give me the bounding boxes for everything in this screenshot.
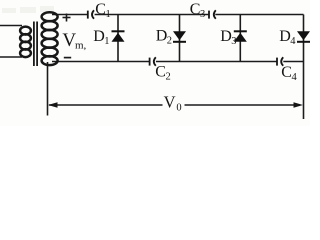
svg-text:2: 2 — [167, 36, 172, 47]
svg-text:D: D — [156, 28, 168, 45]
svg-text:V: V — [164, 93, 176, 112]
svg-text:3: 3 — [200, 9, 205, 20]
svg-text:4: 4 — [290, 36, 296, 47]
svg-text:D: D — [279, 28, 291, 45]
svg-text:m,: m, — [75, 40, 87, 52]
svg-text:D: D — [93, 28, 105, 45]
svg-text:D: D — [220, 28, 232, 45]
svg-text:3: 3 — [231, 36, 236, 47]
svg-text:C: C — [281, 64, 292, 81]
svg-text:0: 0 — [176, 103, 181, 114]
svg-text:1: 1 — [106, 9, 111, 20]
svg-text:C: C — [95, 1, 106, 18]
svg-text:1: 1 — [104, 36, 109, 47]
svg-text:C: C — [155, 64, 166, 81]
svg-text:4: 4 — [292, 72, 298, 83]
svg-text:C: C — [190, 1, 201, 18]
svg-text:2: 2 — [166, 72, 171, 83]
